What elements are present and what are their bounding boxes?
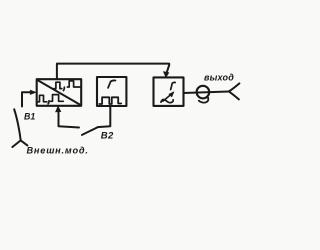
modulator upper pulse 2 — [67, 81, 80, 87]
arrowhead into modulator bottom — [56, 106, 61, 112]
switch B2 arm — [82, 127, 97, 134]
wire switch B1 input to modulator — [22, 92, 32, 106]
modulator upper pulse 1 — [54, 82, 62, 88]
arrowhead into attenuator top — [163, 72, 169, 78]
input connector fork — [12, 140, 27, 147]
generator G letter — [108, 80, 115, 87]
pulse generator block G1 — [97, 77, 126, 106]
wire top feedback — [57, 64, 169, 79]
attenuator block A1 — [154, 77, 184, 106]
modulator upper comma — [62, 87, 65, 90]
connector tail — [199, 96, 209, 102]
generator pulse waveform — [99, 97, 121, 104]
wire B2 left lead — [59, 111, 80, 127]
attenuator G letter — [171, 82, 176, 89]
output connector circle — [197, 86, 210, 99]
wire generator bottom lead — [98, 107, 111, 128]
attenuator squiggle — [161, 100, 173, 103]
attenuator arrow shaft — [163, 95, 171, 102]
output plug fork — [229, 83, 240, 99]
modulator block U1 — [37, 79, 81, 106]
attenuator arrowhead — [169, 92, 174, 97]
svg-text:выход: выход — [204, 72, 234, 82]
modulator diagonal — [37, 80, 80, 105]
svg-text:Внешн.мод.: Внешн.мод. — [27, 145, 89, 155]
modulator lower comma — [47, 101, 50, 104]
wire output line — [184, 92, 229, 94]
arrowhead into modulator left — [30, 90, 36, 94]
modulator lower pulse 1 — [38, 95, 47, 102]
modulator lower pulse 2 — [51, 95, 64, 102]
svg-text:В2: В2 — [101, 131, 114, 142]
switch B1 arm — [14, 109, 21, 140]
svg-text:В1: В1 — [24, 112, 35, 122]
